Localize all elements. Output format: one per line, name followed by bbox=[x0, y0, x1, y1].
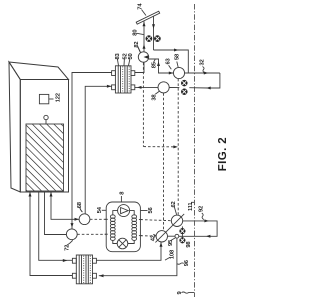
heater element hatched box bbox=[26, 124, 64, 191]
arrow into pump 58 bbox=[169, 72, 174, 75]
wire tank to valve 68 bbox=[51, 192, 79, 219]
bracket 32 right side bbox=[208, 73, 220, 88]
arrow to bracket92 bbox=[204, 219, 209, 222]
supply pipe to radiator bbox=[143, 21, 145, 52]
arrow to bracket32 bbox=[204, 72, 209, 75]
arrow at end of dashed horiz bbox=[173, 145, 178, 148]
valves (dark circles with white cross) bbox=[146, 36, 188, 244]
heat exchanger bottom bbox=[72, 255, 96, 284]
leader 95 bbox=[171, 238, 175, 241]
arrow into HXB lower right bbox=[99, 274, 104, 277]
svg-text:83: 83 bbox=[114, 52, 121, 59]
dashed link horizontal bbox=[143, 146, 176, 148]
leader 108 bbox=[165, 258, 170, 261]
svg-text:58: 58 bbox=[174, 53, 181, 60]
arrow up into pump 42 bbox=[160, 242, 163, 247]
valve 98 lower bbox=[180, 238, 186, 244]
coil 54 (left, evaporator) bbox=[110, 215, 115, 241]
pipe 108 bbox=[96, 242, 161, 260]
valve 98 upper bbox=[180, 228, 186, 234]
nozzle stubs on unit8 left edge bbox=[105, 218, 108, 220]
leader 74 bbox=[142, 10, 147, 16]
leader 56 bbox=[141, 210, 148, 212]
svg-text:96: 96 bbox=[183, 259, 190, 266]
pump 82 wedge bbox=[144, 55, 149, 59]
dash-dot boundary 111 bbox=[194, 4, 196, 297]
svg-text:72: 72 bbox=[63, 245, 70, 251]
valve on radiator return (right of pipe) bbox=[154, 36, 160, 42]
leader 111 bbox=[192, 202, 195, 204]
svg-text:56: 56 bbox=[147, 206, 154, 213]
dashed link pump 38 to pump 42 bbox=[163, 93, 165, 230]
dashed link pump 82 down bbox=[142, 63, 144, 147]
control box 122 bbox=[39, 94, 48, 103]
valve on radiator return (left of pipe) bbox=[146, 36, 152, 42]
pipe HX50 upper-left down to valve72 bbox=[72, 73, 112, 229]
pump 38 bbox=[158, 82, 169, 93]
svg-text:FIG. 2: FIG. 2 bbox=[217, 137, 229, 171]
svg-text:95: 95 bbox=[167, 239, 174, 246]
svg-text:9: 9 bbox=[176, 291, 183, 295]
arrow down into valve 72 bbox=[71, 223, 74, 228]
dashed line unit 8 to pump 42 bbox=[140, 235, 156, 237]
svg-text:50: 50 bbox=[127, 53, 134, 59]
leader 92 bbox=[202, 213, 204, 220]
svg-text:32: 32 bbox=[199, 59, 206, 65]
valve 68 bbox=[79, 214, 90, 225]
arrow into HX50 left (from tank line) bbox=[107, 85, 112, 88]
valve above heating return line bbox=[181, 80, 187, 86]
arrow on upper return horizontal bbox=[174, 49, 179, 52]
leader 9 bottom bbox=[182, 292, 195, 293]
leader 63 bbox=[169, 65, 172, 69]
arrow back from bracket92 bbox=[206, 235, 211, 238]
heat pump unit 8 bbox=[106, 202, 140, 252]
leader 80 bbox=[136, 33, 143, 34]
leader 82 bbox=[138, 47, 141, 53]
wire tank to HXB upper-left bbox=[39, 192, 73, 260]
dashed leaders top->bottom bbox=[77, 63, 178, 237]
leader 62 bbox=[174, 207, 176, 215]
wire tank to valve 72 bbox=[45, 192, 67, 235]
valve 72 bbox=[66, 229, 77, 240]
svg-text:42: 42 bbox=[149, 235, 156, 241]
wire tank to HXB lower-left bbox=[30, 192, 72, 276]
svg-text:80: 80 bbox=[131, 30, 138, 36]
valve stub to 62 bbox=[181, 226, 183, 243]
pump 58 bbox=[173, 67, 184, 78]
svg-text:54: 54 bbox=[97, 206, 103, 213]
coils inside unit 8 bbox=[110, 215, 136, 241]
return line through valves to HX50 bbox=[169, 87, 179, 89]
svg-text:108: 108 bbox=[169, 249, 176, 259]
leader 85 bbox=[154, 59, 156, 62]
leader 42 bbox=[153, 234, 156, 235]
svg-text:92: 92 bbox=[197, 206, 204, 212]
pump 42 bbox=[156, 231, 167, 242]
arrow into HX50 right bbox=[137, 86, 142, 89]
arrow into valve 68 bbox=[75, 218, 80, 221]
svg-text:68: 68 bbox=[76, 201, 83, 208]
nozzle stubs on unit8 right edge bbox=[139, 219, 142, 221]
cabinet top face bbox=[9, 62, 69, 80]
leader 8 bbox=[120, 196, 122, 202]
diagonal shaft bbox=[155, 214, 184, 243]
up arrows on supply pipe bbox=[143, 22, 146, 27]
svg-text:62: 62 bbox=[170, 201, 177, 207]
leader 38 bbox=[155, 91, 159, 94]
svg-text:98: 98 bbox=[185, 241, 192, 248]
arrow up on 85 S-bend bbox=[157, 62, 160, 67]
labels (rotated) bbox=[55, 3, 230, 295]
valve below heating return line bbox=[181, 89, 187, 95]
svg-text:8: 8 bbox=[119, 191, 126, 195]
arrow on tank->HXB upper line bbox=[63, 259, 68, 262]
junction 95 bbox=[175, 234, 179, 238]
pipe 85 bbox=[149, 59, 174, 73]
pump 62 bbox=[171, 215, 182, 226]
svg-text:38: 38 bbox=[150, 94, 157, 101]
svg-text:82: 82 bbox=[133, 42, 140, 48]
pipe HX50 upper-right to pump82 bbox=[135, 62, 144, 72]
leader 58 bbox=[177, 62, 178, 68]
drop pipe 96 bbox=[99, 238, 177, 276]
down arrow on return pipe bbox=[152, 24, 155, 29]
bracket 92 bbox=[179, 221, 217, 236]
svg-text:122: 122 bbox=[55, 93, 62, 102]
dashed line valve 72 to unit 8 bbox=[77, 233, 106, 235]
radiator 74 (slanted bar) bbox=[136, 11, 160, 24]
leader 54 bbox=[102, 209, 106, 211]
leader 96 bbox=[177, 263, 184, 264]
sensor above hatched box bbox=[44, 115, 48, 119]
leader 72b label bbox=[67, 240, 73, 245]
leader 68 bbox=[80, 208, 83, 213]
leaders 83 52 50 bbox=[117, 59, 118, 66]
svg-text:111: 111 bbox=[188, 202, 194, 211]
arrow back from bracket32 bbox=[206, 87, 211, 90]
leader 32 bbox=[203, 67, 205, 73]
heat exchanger 50 bbox=[112, 66, 135, 93]
pump 82 bbox=[138, 52, 148, 62]
pipe HX50 lower-left down to valve68 bbox=[85, 86, 111, 214]
cabinet left side face bbox=[9, 62, 20, 192]
arrows up into tank bbox=[29, 192, 32, 197]
dashed line unit 8 to pump 62 bbox=[140, 220, 171, 221]
return pipe from radiator bbox=[153, 16, 155, 50]
svg-text:85: 85 bbox=[151, 61, 158, 68]
dashed link pump 58 to pump 62 bbox=[177, 79, 179, 215]
svg-text:74: 74 bbox=[138, 3, 144, 10]
coil 56 (right, condenser) bbox=[132, 215, 137, 241]
dashed line valve 68 to unit 8 bbox=[90, 218, 106, 220]
svg-text:63: 63 bbox=[165, 57, 172, 64]
solid arrows bbox=[29, 22, 211, 277]
cabinet front face bbox=[20, 80, 68, 193]
